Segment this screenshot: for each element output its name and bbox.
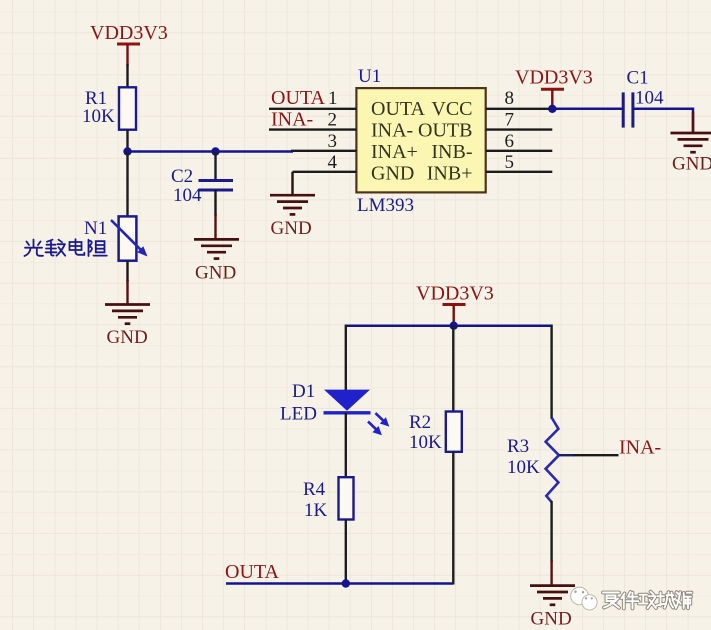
potentiometer R3 zigzag: [546, 418, 559, 503]
svg-text:R2: R2: [409, 412, 431, 433]
ground (pin 4): [270, 195, 315, 214]
svg-text:6: 6: [505, 131, 515, 152]
svg-text:VDD3V3: VDD3V3: [416, 283, 494, 305]
op-amp U1 LM393 body: [356, 88, 485, 192]
pin 1 wire: [269, 108, 356, 110]
pin 3 wire: [291, 150, 356, 152]
wire D1 to R4: [345, 413, 347, 477]
junction node A: [123, 147, 131, 155]
svg-text:INB+: INB+: [427, 163, 473, 185]
watermark lion icon: [571, 587, 597, 610]
svg-text:OUTA: OUTA: [271, 87, 326, 109]
wire R1 to node A: [126, 130, 128, 152]
wire R4 to OUTA net: [345, 520, 347, 584]
svg-text:D1: D1: [292, 381, 315, 402]
wire main node A to pin 3: [128, 150, 294, 153]
svg-text:C1: C1: [627, 68, 649, 89]
pin 5 wire: [486, 171, 553, 173]
resistor R4: [339, 477, 354, 519]
svg-text:3: 3: [328, 131, 338, 152]
svg-text:R3: R3: [507, 436, 529, 457]
svg-text:R4: R4: [303, 479, 326, 500]
junction node A / C2: [211, 147, 219, 155]
wire OUTA horizontal: [226, 582, 453, 585]
svg-text:GND: GND: [531, 609, 572, 630]
wire R3 to ground: [550, 501, 552, 562]
svg-text:5: 5: [505, 152, 515, 173]
svg-text:1: 1: [328, 88, 338, 109]
pin 6 wire: [486, 150, 553, 152]
svg-text:1K: 1K: [304, 500, 328, 521]
pin 8 wire: [486, 108, 553, 110]
pin 7 wire: [486, 128, 553, 130]
svg-text:104: 104: [173, 185, 202, 206]
wire pin 4 to ground: [291, 172, 293, 195]
ground (C2): [194, 239, 239, 258]
svg-text:10K: 10K: [507, 457, 540, 478]
svg-text:GND: GND: [371, 163, 414, 185]
resistor R2: [446, 412, 462, 452]
svg-text:OUTA: OUTA: [225, 561, 280, 583]
photoresistor N1: [111, 216, 148, 260]
LED emission arrows: [368, 413, 389, 435]
wire N1 to ground: [126, 261, 128, 282]
capacitor C2: [199, 181, 234, 191]
power VDD3V3 right: [515, 67, 593, 109]
wire VDD3V3 to R1: [126, 64, 128, 88]
wire R2 to OUTA net: [452, 452, 454, 585]
wire rail to R2: [452, 326, 454, 412]
svg-text:INA-: INA-: [371, 120, 413, 142]
ground (C1): [671, 133, 711, 152]
wire rail to R3: [550, 326, 551, 419]
wire C1 to ground corner: [633, 109, 693, 133]
watermark text 硬件攻城狮: [603, 592, 692, 609]
svg-text:VCC: VCC: [431, 98, 472, 120]
wire VDD rail: [346, 324, 552, 327]
wire node A to N1: [126, 152, 128, 217]
svg-text:GND: GND: [271, 218, 312, 239]
svg-text:C2: C2: [171, 166, 193, 187]
svg-text:LM393: LM393: [357, 195, 414, 216]
svg-text:OUTA: OUTA: [371, 98, 426, 120]
wire C2 to ground: [214, 190, 216, 216]
svg-text:GND: GND: [107, 327, 148, 348]
capacitor C1: [623, 92, 633, 127]
ground (N1): [105, 305, 150, 324]
resistor R1: [119, 87, 136, 129]
wire junction to C2: [214, 152, 216, 181]
svg-text:7: 7: [505, 110, 515, 131]
svg-text:LED: LED: [280, 404, 317, 425]
power VDD3V3 bottom: [416, 283, 494, 326]
value 光敏电阻 (photoresistor): [25, 239, 107, 256]
R3 wiper wire to INA-: [559, 454, 574, 456]
svg-text:10K: 10K: [82, 106, 115, 127]
wire corner drop (maroon): [692, 112, 695, 133]
svg-text:N1: N1: [84, 218, 107, 239]
junction pin 8 / VDD: [548, 105, 556, 113]
pin 4 wire: [293, 171, 357, 173]
svg-text:INA-: INA-: [271, 109, 313, 131]
junction OUTA: [342, 579, 350, 587]
junction VDD rail: [450, 322, 458, 330]
svg-text:VDD3V3: VDD3V3: [515, 67, 593, 89]
wire rail to D1: [345, 325, 347, 391]
svg-text:GND: GND: [672, 154, 711, 175]
svg-text:INB-: INB-: [431, 141, 472, 163]
svg-text:104: 104: [635, 88, 664, 109]
power VDD3V3 top-left: [90, 22, 168, 66]
svg-text:INA+: INA+: [371, 141, 418, 163]
wire junction to C1: [552, 108, 622, 111]
svg-text:INA-: INA-: [619, 437, 661, 459]
svg-text:U1: U1: [358, 66, 381, 87]
ground (R3): [530, 586, 575, 605]
svg-text:10K: 10K: [409, 432, 442, 453]
pin 2 wire: [269, 128, 356, 130]
svg-text:VDD3V3: VDD3V3: [90, 22, 168, 44]
LED D1: [324, 390, 371, 413]
svg-text:4: 4: [328, 152, 338, 173]
svg-text:OUTB: OUTB: [418, 120, 472, 142]
svg-text:8: 8: [505, 88, 515, 109]
svg-text:GND: GND: [195, 263, 236, 284]
svg-text:2: 2: [328, 110, 338, 131]
